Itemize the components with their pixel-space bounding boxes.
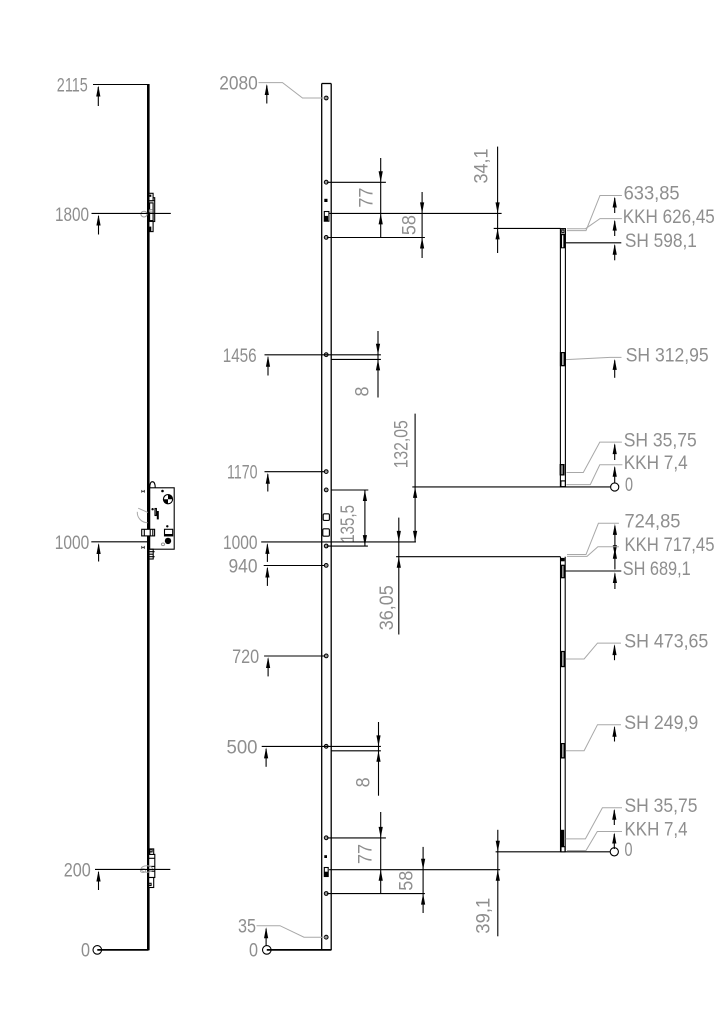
svg-text:724,85: 724,85 xyxy=(625,512,681,533)
small dot xyxy=(161,490,164,493)
arrow 940 xyxy=(266,568,268,586)
svg-text:1170: 1170 xyxy=(227,462,258,484)
main rail top edge xyxy=(322,83,332,85)
bottom hole line (77 upper) xyxy=(327,837,386,839)
cylinder dot xyxy=(165,538,171,544)
bottom hole line (58 lower) xyxy=(327,893,425,895)
leader KKH 7,4 rod1 xyxy=(567,465,623,485)
arrow 200 xyxy=(98,872,100,890)
hole reference line at 1170 lower hole xyxy=(331,489,368,491)
dim 36,05 vertical line xyxy=(398,518,400,635)
section mark bottom xyxy=(141,546,143,549)
arrow SH 473,65 xyxy=(614,646,616,661)
rod2 top pin xyxy=(561,558,565,561)
arrow 1456 xyxy=(267,357,269,375)
dimension line 1456 xyxy=(265,354,381,356)
arrow 720 xyxy=(267,659,269,677)
svg-text:77: 77 xyxy=(356,188,378,208)
rod2 bottom pin square xyxy=(561,847,565,852)
bottom latch body (200) xyxy=(149,854,155,877)
line to rod1 top xyxy=(494,227,561,229)
arrow SH 35,75 rod2 xyxy=(613,810,615,825)
arrow 633,85 xyxy=(614,198,616,213)
svg-text:34,1: 34,1 xyxy=(471,149,493,184)
dimension line 500 xyxy=(262,745,381,747)
screw cross circle xyxy=(163,495,172,504)
dim 8 top second line xyxy=(331,358,381,360)
arrow 500 xyxy=(265,749,267,767)
dimension line 200 xyxy=(95,868,170,870)
datum circle 0 rod2 xyxy=(610,848,618,856)
svg-text:0: 0 xyxy=(81,940,90,962)
datum circle 0 rail xyxy=(263,946,272,955)
svg-text:2115: 2115 xyxy=(57,75,88,97)
rail lock slot bottom xyxy=(324,868,328,877)
svg-text:2080: 2080 xyxy=(219,73,258,95)
svg-text:SH 473,65: SH 473,65 xyxy=(624,631,708,652)
dim 39,1 vertical line xyxy=(497,830,499,937)
top latch lower tab xyxy=(149,221,153,231)
dim 132,05 vertical line xyxy=(414,414,416,542)
arrow 2080 xyxy=(266,86,268,104)
bottom latch upper tab xyxy=(150,849,154,855)
arrow KKH 7,4 rod1 xyxy=(614,467,616,483)
svg-text:720: 720 xyxy=(232,646,259,668)
rod2 roller 2 (SH 249,9) xyxy=(560,743,565,759)
svg-text:0: 0 xyxy=(625,475,633,496)
bottom latch gray ellipses xyxy=(141,866,152,873)
top hole line (77 upper) xyxy=(327,181,386,183)
rail follower slot lower xyxy=(323,529,330,536)
top latch body (1800) xyxy=(149,198,155,222)
svg-text:KKH 626,45: KKH 626,45 xyxy=(623,207,715,228)
leader KKH 626,45 xyxy=(567,219,622,229)
rod2 bottom block xyxy=(561,830,565,847)
svg-text:940: 940 xyxy=(229,556,258,578)
main rail left edge xyxy=(321,84,323,951)
rod1 bottom block xyxy=(560,464,565,476)
leader 2080 xyxy=(259,83,325,98)
left faceplate bar xyxy=(147,84,150,950)
svg-text:SH 312,95: SH 312,95 xyxy=(626,346,709,367)
svg-text:1000: 1000 xyxy=(55,532,90,554)
svg-text:1456: 1456 xyxy=(223,345,257,367)
dim 8 bottom second line xyxy=(331,750,381,752)
leader KKH 7,4 rod2 xyxy=(567,832,622,851)
cylinder rect xyxy=(165,529,173,536)
datum circle 0 rod1 xyxy=(611,483,619,491)
rod1 top pin square xyxy=(561,229,566,235)
lock case latch bump xyxy=(150,482,155,488)
svg-text:135,5: 135,5 xyxy=(337,505,359,543)
line SH 598,1 xyxy=(566,242,622,244)
arrow 2115 xyxy=(97,87,99,106)
arrow 1000 rail xyxy=(266,544,268,562)
arrow KKH 7,4 rod2 xyxy=(613,834,615,849)
dimension line 1800 xyxy=(92,212,171,214)
svg-text:39,1: 39,1 xyxy=(473,898,495,934)
rod2 top block xyxy=(561,565,566,579)
svg-text:200: 200 xyxy=(64,859,91,881)
svg-text:SH 249,9: SH 249,9 xyxy=(624,713,698,734)
rail spindle slot upper xyxy=(323,514,329,521)
dim 77 top vertical line xyxy=(380,158,382,238)
leader 35 xyxy=(257,926,325,938)
dim 58 bottom vertical line xyxy=(422,847,424,913)
datum circle 0 left xyxy=(93,946,102,955)
svg-text:8: 8 xyxy=(353,777,375,787)
dimension line 720 xyxy=(264,655,325,657)
comb detail below case xyxy=(149,549,153,559)
leader 633,85 xyxy=(567,196,622,231)
gray handle arc xyxy=(137,512,147,523)
bottom latch lower tab xyxy=(149,878,154,888)
dim 34,1 vertical line xyxy=(497,147,499,253)
dimension line 0 rail xyxy=(267,949,331,951)
rod2 left edge xyxy=(560,557,562,852)
svg-text:36,05: 36,05 xyxy=(376,585,398,630)
svg-text:132,05: 132,05 xyxy=(390,420,412,468)
arrow 724,85 xyxy=(614,526,616,555)
arrow SH 249,9 xyxy=(614,727,616,741)
leader SH 249,9 xyxy=(566,725,621,751)
dim 58 top vertical line xyxy=(421,192,423,258)
arrow 1000 left xyxy=(98,545,100,562)
svg-text:KKH 717,45: KKH 717,45 xyxy=(625,535,715,556)
dimension line 1000 rail xyxy=(261,541,416,543)
svg-text:KKH 7,4: KKH 7,4 xyxy=(625,820,688,841)
rod1 mid roller (SH 312,95) xyxy=(560,352,566,366)
leader SH 35,75 rod2 xyxy=(566,808,623,839)
top slot line (58 upper) xyxy=(329,212,502,214)
dim 135,5 vertical line xyxy=(364,490,366,546)
svg-text:1000: 1000 xyxy=(223,532,258,554)
dim 77 bottom vertical line xyxy=(380,812,382,894)
svg-text:35: 35 xyxy=(238,916,256,938)
dim 8 bottom vertical line xyxy=(378,722,380,796)
rail screw holes xyxy=(324,96,328,939)
svg-text:SH 598,1: SH 598,1 xyxy=(625,231,697,252)
rod1 right edge xyxy=(564,228,566,487)
svg-text:500: 500 xyxy=(227,736,258,758)
dimension line 940 xyxy=(264,565,325,567)
rod2 roller 1 (SH 473,65) xyxy=(560,651,565,667)
arrow 35 xyxy=(265,929,267,946)
top hole line (58 lower) xyxy=(327,237,425,239)
svg-text:58: 58 xyxy=(399,215,421,235)
leader SH 35,75 rod1 xyxy=(567,442,622,472)
rod1 bottom pin square xyxy=(561,481,565,487)
hole reference line at 1000 hole xyxy=(327,545,368,547)
svg-text:KKH 7,4: KKH 7,4 xyxy=(624,453,688,474)
rail square mark top xyxy=(324,199,327,202)
arrow SH 689,1 xyxy=(614,574,616,590)
dimension line 1000 left xyxy=(91,541,150,543)
svg-text:633,85: 633,85 xyxy=(624,184,680,205)
line to rod2 top (724,85 level) xyxy=(396,556,560,558)
arrow SH 312,95 xyxy=(614,360,616,377)
rod1 left edge xyxy=(559,228,561,487)
section mark top xyxy=(141,490,143,493)
rod2 zero line xyxy=(496,851,611,853)
leader 724,85 xyxy=(567,523,619,554)
arrow SH 35,75 rod1 xyxy=(614,445,616,460)
svg-text:1800: 1800 xyxy=(55,204,89,226)
svg-text:0: 0 xyxy=(249,940,258,962)
svg-text:SH 35,75: SH 35,75 xyxy=(624,430,697,451)
lock case body (at 1000) xyxy=(150,488,175,549)
line SH 689,1 xyxy=(565,570,621,572)
svg-text:77: 77 xyxy=(355,844,377,864)
bottom slot line (58 upper) xyxy=(329,869,500,871)
arrow 1170 xyxy=(267,474,269,491)
svg-text:58: 58 xyxy=(396,871,418,891)
spring detail xyxy=(151,508,153,510)
leader KKH 717,45 xyxy=(567,547,619,557)
rod1 top block xyxy=(560,234,565,248)
rail lock slot top xyxy=(324,212,329,222)
svg-text:SH 35,75: SH 35,75 xyxy=(625,796,698,817)
follower rect xyxy=(142,529,155,536)
left bar top edge line xyxy=(93,84,150,86)
rod1 zero line xyxy=(412,486,610,488)
svg-text:0: 0 xyxy=(625,840,633,861)
rail square mark bottom xyxy=(324,855,327,858)
svg-text:8: 8 xyxy=(352,387,374,397)
leader SH 312,95 xyxy=(566,357,622,359)
main rail right edge xyxy=(330,84,332,951)
top latch gray roller ellipse xyxy=(141,211,147,217)
arrow 1800 xyxy=(98,216,100,235)
dim 8 top vertical line xyxy=(377,331,379,398)
arrow KKH 717,45 xyxy=(614,549,616,569)
arrow SH 598,1 xyxy=(614,245,616,260)
svg-text:SH 689,1: SH 689,1 xyxy=(623,559,691,580)
arrow KKH 626,45 xyxy=(614,221,616,236)
leader SH 473,65 xyxy=(566,643,621,659)
dimension line 0 left xyxy=(97,949,148,951)
top latch upper tab xyxy=(149,193,153,200)
dimension line 1170 xyxy=(265,471,325,473)
rod2 right edge xyxy=(564,557,566,852)
